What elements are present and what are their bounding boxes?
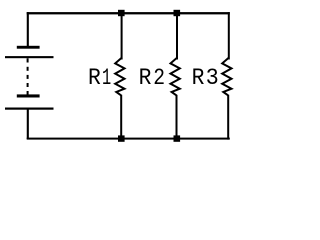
wire left upper (top rail to battery + plate) [27,12,29,47]
junction dot bottom R1 [118,135,125,141]
wire right upper (top rail to R3) [228,12,230,59]
resistor R1 zigzag [115,58,124,96]
svg-text:3: 3 [206,65,219,92]
wire left lower (battery - plate to bottom rail) [27,109,29,140]
svg-text:1: 1 [102,65,111,92]
wire R2 branch upper [176,13,178,60]
battery V1 thin plate 2 [5,108,54,110]
wire right lower (R3 to bottom rail) [227,95,229,140]
label R1 [88,65,111,92]
battery V1 thick plate 1 [17,46,40,49]
wire R1 branch lower [120,95,122,139]
junction dot top R1 [118,10,125,16]
junction dot bottom R2 [174,135,181,141]
wire bottom (node B: bottom rail) [27,138,230,140]
resistor R2 zigzag [171,58,180,96]
svg-text:2: 2 [153,65,165,92]
battery V1 dashed cell line [27,58,29,94]
junction dot top R2 [174,10,181,16]
battery V1 thick plate 2 [17,94,40,97]
svg-text:R: R [88,65,101,92]
svg-text:R: R [192,65,205,92]
wire R1 branch upper [121,13,123,60]
battery V1 thin plate 1 [5,56,54,58]
svg-text:R: R [139,65,152,92]
label R2 [139,65,166,92]
label R3 [192,65,219,92]
resistor R3 zigzag [222,58,231,96]
wire top (node A: top rail) [27,12,230,14]
wire R2 branch lower [176,95,178,139]
